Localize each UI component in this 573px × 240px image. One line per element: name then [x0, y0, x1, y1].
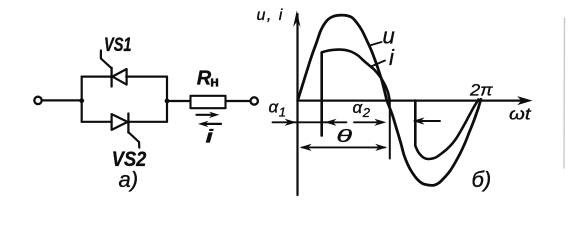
dimension theta double arrow: [302, 146, 385, 148]
page edge shadow: [563, 18, 566, 168]
curve u: [298, 15, 481, 185]
svg-text:i: i: [389, 45, 395, 70]
wire resistor to terminal: [226, 100, 251, 102]
thyristor VS2: [112, 114, 140, 148]
node left junction: [79, 98, 84, 103]
wire top rail left: [82, 75, 112, 77]
wire top rail right: [126, 75, 167, 77]
wire to resistor: [167, 100, 191, 102]
extent line at conduction end: [389, 101, 391, 159]
axis horizontal wt: [298, 99, 523, 101]
svg-text:α1: α1: [269, 98, 286, 120]
terminal left: [34, 97, 41, 104]
leader u: [371, 42, 382, 45]
wire left branch vertical: [81, 77, 83, 122]
wire bottom rail left: [82, 121, 112, 123]
thyristor VS1: [101, 51, 127, 87]
dimension arrow at negative firing: [422, 120, 440, 122]
wire bottom rail right: [128, 121, 167, 123]
svg-text:б): б): [472, 167, 492, 192]
terminal right: [251, 97, 258, 104]
leader i: [371, 61, 385, 67]
svg-text:н: н: [210, 74, 219, 91]
svg-text:ωt: ωt: [509, 105, 532, 124]
svg-text:VS1: VS1: [104, 35, 132, 56]
resistor RH: [191, 96, 226, 108]
svg-text:θ: θ: [336, 126, 352, 146]
node right junction: [165, 99, 170, 104]
svg-text:а): а): [119, 167, 139, 192]
current arrow right: [197, 112, 220, 118]
axis vertical u,i: [296, 14, 298, 195]
svg-text:i: i: [206, 126, 214, 146]
dimension alpha1 shaft: [273, 121, 347, 123]
curve i positive with firing jump: [322, 50, 390, 136]
wire right branch vertical: [166, 77, 168, 122]
curve i negative with firing jump: [415, 100, 478, 160]
dimension alpha2 shaft: [354, 121, 380, 123]
svg-text:u, i: u, i: [257, 7, 284, 24]
current arrow left: [198, 121, 221, 127]
wire input: [42, 99, 82, 101]
svg-text:2π: 2π: [469, 81, 493, 100]
